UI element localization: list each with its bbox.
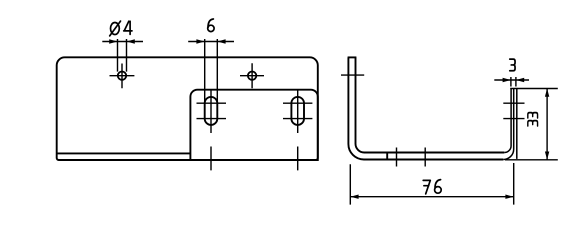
dimension 33 text (rotated) [528,113,538,118]
dimension 76: dimension line [350,196,513,198]
dimension 33: dimension line [546,89,548,160]
hole 2 circle Ø4 [248,72,256,80]
side view: web hole centerline tick 1 [396,148,398,167]
side view: front plate leg outer line and outer bottom bend [348,57,503,159]
side view: bent-up web end outer line (arc from web bottom) [503,89,513,160]
dimension 76: extension lines [350,163,513,205]
hole 1 centerlines [110,64,135,89]
front view: welded flange plate outline [190,90,317,160]
hole 1 circle Ø4 [118,72,126,80]
dimension Ø4 text [110,21,132,36]
side view: bent-up web end inner line (arc from web top) [504,89,511,153]
dimension 3 text [510,59,515,71]
front view: main plate outline [57,57,318,160]
side view: slot centerline ticks on right leg [503,103,524,118]
dimension 33: extension lines [505,89,558,160]
dimension 6: dimension line and extension lines [188,39,234,103]
front view: bottom bent strip edge line [57,152,190,154]
side view: strip seam line on web [386,153,388,160]
side view: right leg top cap [510,88,517,90]
dimension 76 text [423,180,441,194]
side view: web hole centerline tick 2 [424,148,426,167]
dimension 33: arrowheads [545,89,549,160]
dimension Ø4: arrowheads [109,39,135,43]
slot 1 centerlines [197,90,227,171]
slot 2 centerlines [283,90,312,171]
dimension 6: arrowheads [196,39,225,43]
side view: front plate leg top cap [348,56,357,58]
side view: front plate leg inner line and inner bottom bend [356,57,505,152]
side view: welded flange outer line [516,89,518,159]
dimension 76: arrowheads [350,195,513,199]
side view: hole centerline tick on left leg [341,74,364,76]
dimension 3: arrowheads [503,78,525,82]
dimension 6 text [208,19,214,32]
dimension Ø4: dimension line and extension lines [102,39,143,72]
slot 2 obround [291,97,304,125]
slot 1 obround [205,97,218,125]
dimension 3: dimension line and extension lines [494,77,529,87]
hole 2 centerlines [240,63,264,88]
